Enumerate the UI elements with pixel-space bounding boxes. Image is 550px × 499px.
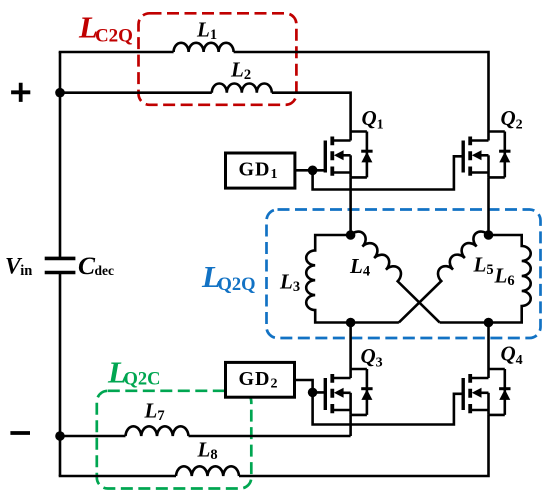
capacitor Cdec plates bbox=[45, 258, 76, 272]
wire GD2 output to Q3 gate bbox=[295, 380, 326, 392]
junction node GD2 gate bbox=[308, 388, 318, 398]
box LC2Q red dashed bbox=[139, 13, 297, 105]
wire GD2 return to Q4 gate bbox=[313, 392, 464, 424]
wire minus bus left bbox=[60, 435, 126, 438]
wire left coupled loop: top, L3 coil, bottom bbox=[306, 235, 399, 323]
plus terminal symbol bbox=[11, 83, 30, 102]
junction node at plus rail bbox=[55, 88, 65, 98]
wire top bus right + Q2 drain drop bbox=[234, 52, 489, 141]
wire right coupled loop: top, L6 coil, bottom bbox=[440, 235, 531, 323]
wire left rail bottom (Cdec down to bottom bus) bbox=[59, 273, 62, 477]
wire top bus left bbox=[59, 51, 174, 54]
transistor Q3 bbox=[325, 369, 372, 415]
inductor L8 bbox=[176, 466, 239, 476]
junction node GD1 gate bbox=[308, 166, 318, 176]
wire GD1 output to Q1 gate bbox=[295, 169, 325, 172]
wire Q2 source down bbox=[487, 177, 490, 235]
gate driver GD2 box bbox=[226, 362, 295, 397]
wire Q3 source down to minus bus bbox=[349, 415, 352, 436]
wire Q4 drain from node bbox=[487, 323, 490, 379]
wire Q3 drain from node bbox=[349, 323, 352, 379]
wire bottom bus right up to Q4 source bbox=[239, 415, 489, 476]
gate driver GD1 box bbox=[226, 153, 295, 188]
junction node C (Q3 drain / L3-L5 bottom) bbox=[346, 318, 356, 328]
wire left rail top (plus rail down to Cdec) bbox=[59, 52, 62, 258]
junction node A (Q1 source / L3-L4 top) bbox=[346, 230, 356, 240]
inductor L2 bbox=[212, 84, 272, 93]
wire GD1 return to Q2 gate bbox=[313, 156, 464, 189]
wire minus bus right to Q3 source bbox=[189, 435, 351, 438]
transistor Q4 bbox=[463, 369, 510, 415]
inductor L1 bbox=[174, 43, 234, 52]
box LQ2C green dashed bbox=[97, 391, 252, 489]
wire Q1 source to node A bbox=[349, 177, 352, 235]
box LQ2Q blue dashed bbox=[267, 210, 541, 339]
wire bottom bus left bbox=[59, 475, 176, 478]
junction node D (Q4 drain / L4-L6 bottom) bbox=[484, 318, 494, 328]
minus terminal symbol bbox=[10, 431, 30, 435]
wire second bus right + Q1 drain drop bbox=[272, 93, 351, 141]
inductor L7 bbox=[126, 426, 189, 436]
wire second bus left bbox=[60, 91, 212, 94]
junction node at minus rail bbox=[55, 431, 65, 441]
inductor L4 diagonal coil bbox=[351, 228, 447, 323]
transistor Q1 bbox=[325, 132, 372, 178]
transistor Q2 bbox=[463, 132, 510, 178]
junction node B (Q2 source / L5-L6 top) bbox=[484, 230, 494, 240]
inductor L5 diagonal coil bbox=[392, 228, 489, 323]
